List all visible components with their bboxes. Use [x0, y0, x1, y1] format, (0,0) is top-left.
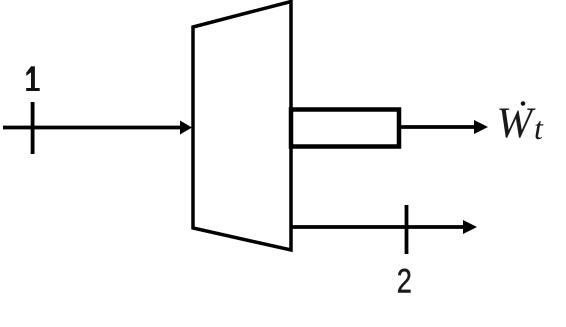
- node 2 tick mark: [405, 205, 409, 254]
- turbine body (trapezoid): [193, 2, 291, 251]
- shaft (rectangle): [291, 110, 399, 147]
- wire: inlet stream line: [3, 126, 183, 130]
- svg-text:2: 2: [397, 262, 412, 301]
- wire: outlet stream line: [291, 225, 464, 229]
- shaft arrowhead: [474, 120, 488, 134]
- node 1 label (drawn digit): [26, 66, 40, 91]
- outlet arrowhead: [463, 220, 477, 234]
- inlet arrowhead: [180, 121, 192, 135]
- svg-text:W: W: [497, 100, 537, 147]
- wire: shaft output arrow line: [401, 125, 475, 129]
- node 2 label: [397, 262, 412, 301]
- label W-dot t (turbine work): [497, 100, 545, 147]
- node 1 tick mark: [31, 102, 35, 154]
- svg-text:t: t: [534, 110, 544, 146]
